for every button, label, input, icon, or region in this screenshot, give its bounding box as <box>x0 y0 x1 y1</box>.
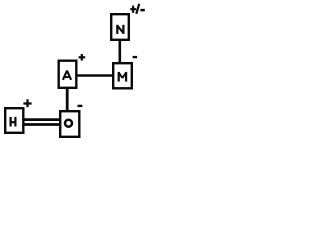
wire H to O double bond lower <box>24 123 61 126</box>
wire A to M <box>76 74 113 77</box>
wire H to O double bond upper <box>24 118 61 121</box>
node H box <box>5 108 23 133</box>
node N box <box>111 14 129 40</box>
label + for A <box>79 54 86 61</box>
label +/- for N <box>130 4 145 14</box>
label + for H <box>23 99 31 107</box>
label - for M <box>133 56 138 58</box>
node O box <box>60 111 79 137</box>
node M box <box>113 63 132 88</box>
wire N to M <box>119 40 122 64</box>
label - for O <box>78 105 83 107</box>
wire A to O <box>66 88 69 111</box>
node A box <box>59 61 77 88</box>
